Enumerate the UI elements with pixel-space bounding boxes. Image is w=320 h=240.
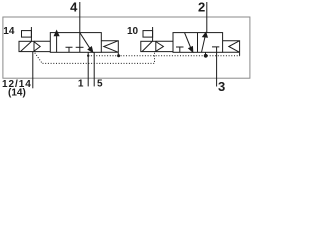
valve V2 blocked port T left <box>176 47 184 52</box>
svg-text:10: 10 <box>127 26 139 37</box>
port line 5 <box>93 52 95 86</box>
wire pilot rect to solenoid V2 <box>152 27 154 41</box>
valve V2 divider <box>197 33 199 53</box>
pilot channel V1 top and bottom lines <box>34 41 50 51</box>
valve V2 blocked port T right <box>212 47 219 52</box>
pilot channel V2 top and bottom lines <box>156 41 173 51</box>
port line 12/14 <box>32 52 34 89</box>
svg-text:14: 14 <box>3 26 15 37</box>
wire spring V1 to rail <box>117 52 119 55</box>
port line 4 <box>79 2 81 33</box>
solenoid coil V1 <box>19 41 34 51</box>
valve V1 blocked port T left <box>66 47 73 52</box>
port line 1 <box>87 52 89 86</box>
valve V1 flow arrow up <box>56 35 58 52</box>
valve V2 pilot rectangle <box>143 31 153 37</box>
valve V1 pilot rectangle <box>22 31 32 37</box>
solenoid coil V2 <box>141 41 156 51</box>
valve V2 flow arrow up (diagonal 1 to 2) <box>202 36 206 52</box>
svg-text:5: 5 <box>97 79 103 90</box>
valve V1 exhaust diagonal <box>80 33 90 49</box>
wire pilot rect to solenoid V1 <box>30 27 32 41</box>
junction V2 supply <box>204 54 208 58</box>
pilot triangle V1 <box>34 42 41 52</box>
valve V1 blocked port T right <box>76 46 84 48</box>
svg-text:2: 2 <box>198 0 205 15</box>
wire V2 supply stub to rail <box>205 52 207 56</box>
svg-text:4: 4 <box>70 0 78 15</box>
wire pilot V2 to rail dashed <box>154 53 156 64</box>
enclosure frame <box>3 17 250 78</box>
port line 3 <box>216 52 218 86</box>
pilot triangle V2 <box>156 42 164 52</box>
svg-text:1: 1 <box>78 78 84 89</box>
valve V1 body <box>50 33 101 53</box>
wire spring V2 to rail <box>239 52 241 55</box>
port line 2 <box>206 2 208 33</box>
svg-text:(14): (14) <box>8 88 26 99</box>
valve V2 body <box>173 33 223 53</box>
svg-text:3: 3 <box>218 79 225 94</box>
supply channel dashed rail <box>88 55 240 57</box>
spring V1 <box>101 41 118 53</box>
junction port1 rail <box>87 55 89 57</box>
valve V2 exhaust diagonal <box>185 33 191 48</box>
pilot channel 12/14 dashed rail <box>43 62 155 64</box>
junction V1 spring feed <box>117 54 120 57</box>
wire pilot V1 to rail dashed <box>35 53 42 63</box>
spring V2 <box>223 41 240 53</box>
valve V1 divider <box>79 33 81 53</box>
